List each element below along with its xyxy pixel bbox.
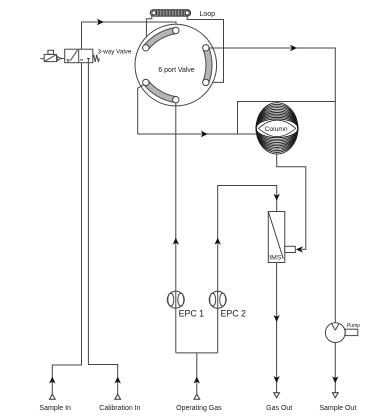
svg-text:EPC 1: EPC 1 bbox=[179, 308, 205, 318]
svg-text:Column: Column bbox=[265, 126, 288, 133]
svg-text:Sample Out: Sample Out bbox=[319, 405, 356, 412]
svg-text:Pump: Pump bbox=[347, 323, 360, 329]
svg-text:IMS: IMS bbox=[269, 255, 282, 262]
svg-text:3-way Valve: 3-way Valve bbox=[98, 49, 132, 56]
svg-text:Calibration In: Calibration In bbox=[99, 405, 140, 412]
svg-text:Loop: Loop bbox=[200, 11, 216, 18]
svg-text:Gas Out: Gas Out bbox=[266, 405, 292, 412]
svg-text:6 port Valve: 6 port Valve bbox=[158, 67, 194, 74]
svg-text:EPC 2: EPC 2 bbox=[221, 308, 247, 318]
svg-text:Sample In: Sample In bbox=[39, 405, 71, 412]
svg-text:Operating Gas: Operating Gas bbox=[176, 405, 222, 412]
